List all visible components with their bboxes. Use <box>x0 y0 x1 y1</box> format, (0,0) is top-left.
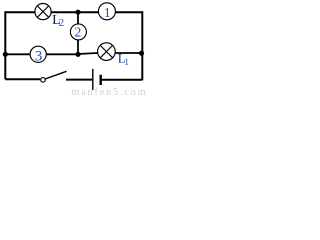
wire: right vertical <box>141 11 143 80</box>
node: junction dot on top wire <box>75 10 80 15</box>
wire: left vertical <box>4 11 6 79</box>
svg-text:3: 3 <box>35 48 43 64</box>
wire: stub from top wire down to meter 2 <box>77 12 79 24</box>
lamp L2 <box>35 4 51 20</box>
wire: bottom segment left corner to switch <box>5 78 40 80</box>
switch S (open) <box>41 71 67 82</box>
wire: bottom segment battery to right corner <box>102 79 143 81</box>
meter circle 3 <box>30 46 46 64</box>
wire: middle segment from junction to lamp L1 <box>78 53 98 54</box>
meter circle 1 <box>98 3 115 21</box>
meter circle 2 <box>70 24 86 41</box>
svg-text:manfen5.com: manfen5.com <box>72 87 146 96</box>
battery long plate <box>92 69 94 90</box>
svg-text:1: 1 <box>124 58 129 68</box>
wire: top segment between lamp L2 and junction/circle 1 <box>51 11 99 13</box>
lamp L1 <box>98 43 116 61</box>
battery cell <box>93 69 101 90</box>
battery short plate <box>99 75 101 85</box>
node: junction dot on right vertical <box>139 51 144 56</box>
wire: top-right segment from circle 1 to right corner <box>116 11 143 13</box>
wire: top-left segment from left corner to lamp L2 <box>5 11 35 13</box>
svg-text:1: 1 <box>104 6 111 21</box>
wire: bottom segment switch to battery <box>66 79 92 81</box>
wire: middle segment from lamp L1 to right vertical <box>115 52 142 54</box>
wire: middle segment from left vertical to meter 3 <box>5 53 30 55</box>
wire: middle segment from meter 3 to junction <box>46 53 78 55</box>
svg-text:2: 2 <box>74 26 81 41</box>
node: junction dot on middle wire <box>75 52 80 57</box>
wire: stub from meter 2 down to middle wire <box>77 40 79 55</box>
node: junction dot on left vertical <box>3 52 8 57</box>
svg-text:2: 2 <box>59 17 65 29</box>
